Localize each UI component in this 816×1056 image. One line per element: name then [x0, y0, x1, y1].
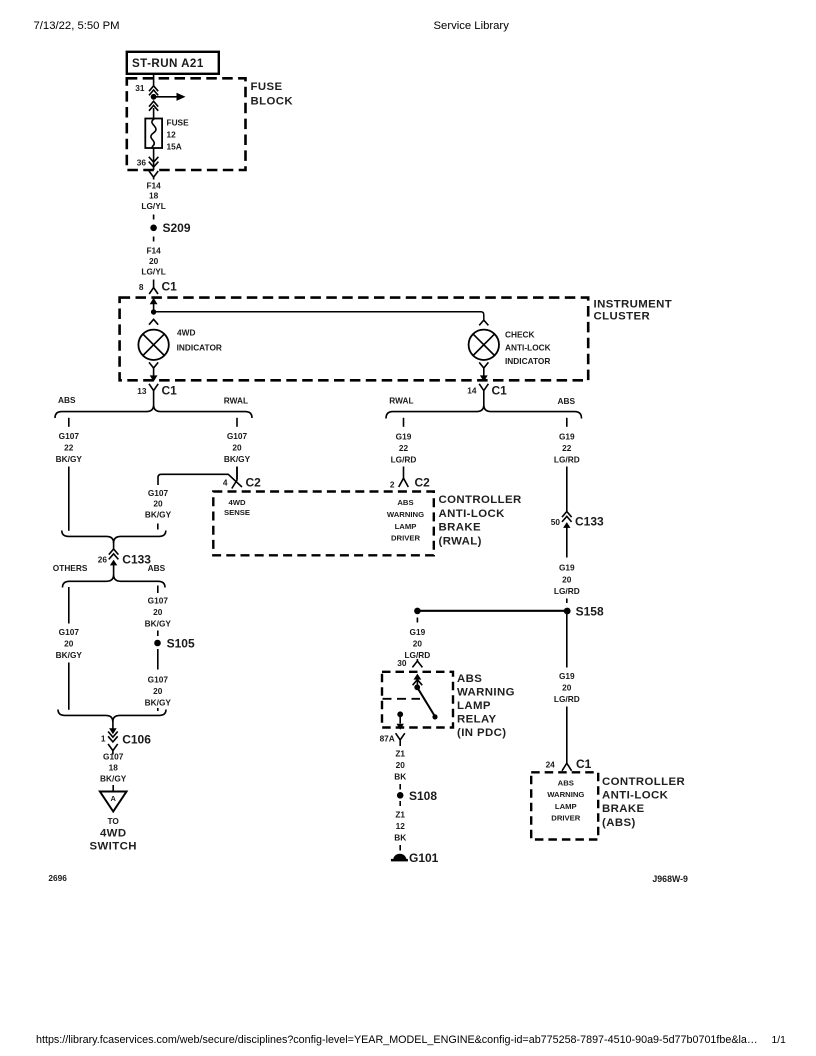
svg-text:CONTROLLER: CONTROLLER [602, 776, 685, 788]
wire ABS G107 20 BK/GY (upper) [145, 586, 172, 637]
svg-text:BLOCK: BLOCK [251, 96, 294, 108]
svg-text:1/1: 1/1 [772, 1035, 787, 1046]
svg-text:ABS: ABS [397, 498, 413, 507]
svg-text:BK: BK [394, 833, 406, 843]
splice S105 [154, 637, 195, 651]
connector fork below fuse block [149, 171, 158, 177]
wire G19 22 LG/RD (RWAL) [391, 418, 417, 478]
svg-text:BRAKE: BRAKE [602, 803, 645, 815]
svg-text:ANTI-LOCK: ANTI-LOCK [439, 508, 506, 520]
connector pin 87A [380, 733, 405, 746]
svg-text:LG/RD: LG/RD [554, 694, 580, 704]
off-page connector A to 4WD switch [90, 792, 137, 853]
wire G19 22 LG/RD (ABS) [554, 418, 580, 511]
connector C1 pin 13 [137, 384, 177, 406]
svg-text:A: A [110, 794, 116, 803]
wire OTHERS G107 20 BK/GY [56, 587, 83, 710]
svg-text:RWAL: RWAL [224, 396, 248, 406]
svg-text:C2: C2 [415, 476, 431, 490]
svg-text:LG/RD: LG/RD [554, 586, 580, 596]
svg-text:20: 20 [562, 683, 572, 693]
svg-text:20: 20 [153, 686, 163, 696]
svg-text:22: 22 [562, 443, 572, 453]
svg-text:ABS: ABS [558, 779, 574, 788]
svg-text:12: 12 [396, 821, 406, 831]
svg-text:G107: G107 [227, 431, 248, 441]
relay output contact [397, 711, 403, 717]
svg-text:C106: C106 [122, 733, 151, 747]
splitter brace below C1-14 [386, 405, 582, 419]
svg-text:24: 24 [546, 760, 556, 770]
svg-text:C133: C133 [575, 515, 604, 529]
svg-text:G107: G107 [59, 627, 80, 637]
svg-text:8: 8 [139, 282, 144, 292]
svg-text:C2: C2 [246, 476, 262, 490]
svg-text:20: 20 [232, 443, 242, 453]
svg-text:G19: G19 [410, 627, 426, 637]
svg-text:G19: G19 [396, 432, 412, 442]
svg-text:36: 36 [137, 158, 147, 168]
svg-text:FUSE: FUSE [251, 81, 283, 93]
svg-text:S158: S158 [576, 605, 604, 619]
svg-text:1: 1 [101, 734, 106, 744]
wire fuse to pin 36 [153, 148, 155, 170]
svg-text:J968W-9: J968W-9 [652, 874, 688, 884]
svg-text:BK/GY: BK/GY [56, 650, 83, 660]
lamp 4WD indicator [138, 319, 222, 376]
svg-text:BK/GY: BK/GY [145, 510, 172, 520]
svg-text:BK/GY: BK/GY [56, 454, 83, 464]
relay switch blade [417, 687, 437, 719]
wire G107 20 BK/GY (RWAL branch) [224, 418, 251, 479]
svg-text:OTHERS: OTHERS [53, 563, 88, 573]
svg-text:WARNING: WARNING [387, 510, 424, 519]
svg-text:20: 20 [64, 639, 74, 649]
junction dot relay branch [414, 608, 421, 615]
svg-text:2696: 2696 [48, 873, 67, 883]
connector C1 pin 8 [139, 280, 177, 295]
svg-text:87A: 87A [380, 734, 395, 744]
svg-text:LAMP: LAMP [395, 522, 417, 531]
connector C1 pin 14 [467, 384, 507, 406]
wire ST-RUN to pin 31 [153, 74, 155, 86]
svg-text:20: 20 [149, 256, 159, 266]
svg-text:LAMP: LAMP [555, 802, 577, 811]
svg-text:ABS: ABS [148, 563, 166, 573]
wire cluster bus [154, 312, 484, 321]
svg-text:F14: F14 [146, 181, 161, 191]
pin 36 [137, 157, 159, 168]
svg-text:LG/RD: LG/RD [404, 650, 430, 660]
svg-text:22: 22 [64, 443, 74, 453]
svg-text:(ABS): (ABS) [602, 817, 636, 829]
relay pin 30 inner chevron [413, 674, 423, 688]
fuse F12 15A [145, 118, 189, 152]
svg-text:S209: S209 [163, 221, 191, 235]
connector C133 pin 26 [98, 542, 152, 577]
controller anti-lock brake ABS enclosure [531, 772, 685, 839]
svg-text:26: 26 [98, 554, 108, 564]
wire F14 20 LG/YL [141, 237, 165, 277]
svg-text:12: 12 [167, 130, 177, 140]
svg-text:BK/GY: BK/GY [100, 774, 127, 784]
svg-text:BK/GY: BK/GY [145, 619, 172, 629]
svg-text:22: 22 [399, 443, 409, 453]
lamp check anti-lock indicator [469, 320, 551, 376]
splice S108 [397, 789, 437, 803]
svg-text:RELAY: RELAY [457, 714, 497, 726]
svg-text:BK/GY: BK/GY [145, 698, 172, 708]
svg-text:Z1: Z1 [395, 810, 405, 820]
svg-text:https://library.fcaservices.co: https://library.fcaservices.com/web/secu… [36, 1034, 758, 1046]
connector C1 pin 24 [546, 757, 592, 771]
svg-text:C1: C1 [162, 280, 178, 294]
svg-text:ABS: ABS [457, 673, 482, 685]
svg-text:4WD: 4WD [177, 328, 195, 338]
svg-text:G107: G107 [103, 752, 124, 762]
wire ABS G107 20 BK/GY (lower) [145, 649, 172, 711]
svg-text:G19: G19 [559, 671, 575, 681]
junction dot cluster bus [151, 309, 156, 314]
splice S158 [564, 605, 604, 619]
svg-text:G107: G107 [148, 488, 169, 498]
svg-text:ABS: ABS [558, 396, 576, 406]
ground G101 [391, 851, 439, 865]
wire G19 20 LG/RD (below S158) [554, 614, 580, 763]
svg-text:(RWAL): (RWAL) [439, 536, 482, 548]
svg-text:INDICATOR: INDICATOR [505, 356, 550, 366]
fuse block enclosure [127, 78, 294, 170]
controller anti-lock brake RWAL enclosure [213, 492, 521, 556]
svg-text:LG/YL: LG/YL [141, 267, 165, 277]
svg-text:18: 18 [109, 763, 119, 773]
svg-text:18: 18 [149, 191, 159, 201]
svg-text:WARNING: WARNING [457, 687, 515, 699]
wire G19 20 LG/RD (above S158) [554, 563, 580, 604]
svg-text:DRIVER: DRIVER [551, 814, 580, 823]
merge brace into C106 [58, 710, 166, 722]
svg-text:G19: G19 [559, 563, 575, 573]
relay switch common contact [414, 684, 420, 690]
svg-text:SWITCH: SWITCH [90, 841, 137, 853]
svg-text:ABS: ABS [58, 395, 76, 405]
svg-text:7/13/22, 5:50 PM: 7/13/22, 5:50 PM [34, 20, 120, 32]
svg-text:LG/RD: LG/RD [391, 455, 417, 465]
svg-text:CONTROLLER: CONTROLLER [439, 494, 522, 506]
svg-text:S108: S108 [409, 789, 437, 803]
relay output wire to pin 87A [397, 714, 404, 730]
merge brace into C133 [62, 531, 166, 544]
male pin arrow out of cluster left [150, 375, 158, 381]
wire G107 18 BK/GY [100, 752, 127, 792]
male pin arrow into cluster [150, 298, 158, 312]
svg-text:BK/GY: BK/GY [224, 454, 251, 464]
svg-text:C1: C1 [162, 384, 178, 398]
wire G107 22 BK/GY [56, 418, 83, 531]
instrument cluster enclosure [120, 298, 673, 381]
svg-text:G107: G107 [59, 431, 80, 441]
svg-text:20: 20 [396, 760, 406, 770]
svg-text:SENSE: SENSE [224, 508, 250, 517]
svg-text:4WD: 4WD [100, 828, 127, 840]
svg-text:BRAKE: BRAKE [439, 522, 482, 534]
splitter brace below C133 [63, 575, 166, 588]
svg-text:G19: G19 [559, 432, 575, 442]
wire Z1 20 BK [394, 749, 406, 790]
svg-text:DRIVER: DRIVER [391, 534, 420, 543]
svg-text:G107: G107 [148, 675, 169, 685]
splice S209 [150, 221, 191, 235]
svg-text:20: 20 [153, 499, 163, 509]
svg-text:4: 4 [223, 478, 228, 488]
svg-text:14: 14 [467, 386, 477, 396]
svg-text:ST-RUN A21: ST-RUN A21 [132, 57, 204, 70]
svg-text:30: 30 [397, 658, 407, 668]
svg-text:TO: TO [108, 816, 120, 826]
connector chevrons below junction [149, 101, 158, 118]
svg-text:INDICATOR: INDICATOR [177, 343, 222, 353]
svg-text:INSTRUMENT: INSTRUMENT [594, 299, 673, 311]
svg-text:BK: BK [394, 772, 406, 782]
connector C2 pin 2 [390, 476, 430, 490]
ABS warning lamp relay enclosure [382, 672, 515, 739]
wire F14 18 LG/YL [141, 177, 165, 220]
svg-text:13: 13 [137, 386, 147, 396]
wire G107 20 BK/GY (to C133) [145, 488, 172, 530]
svg-text:C1: C1 [576, 757, 592, 771]
svg-text:LG/YL: LG/YL [141, 201, 165, 211]
svg-text:ANTI-LOCK: ANTI-LOCK [602, 790, 669, 802]
svg-text:CHECK: CHECK [505, 330, 535, 340]
male pin arrow out of cluster right [480, 375, 488, 381]
svg-text:LG/RD: LG/RD [554, 455, 580, 465]
svg-text:ANTI-LOCK: ANTI-LOCK [505, 343, 551, 353]
svg-text:WARNING: WARNING [547, 790, 584, 799]
svg-text:20: 20 [413, 639, 423, 649]
wire Z1 12 BK [394, 801, 406, 851]
node ST-RUN A21 [127, 52, 219, 74]
connector C133 pin 50 [551, 512, 604, 558]
svg-text:CLUSTER: CLUSTER [594, 311, 651, 323]
pin 31 [135, 83, 158, 95]
svg-text:31: 31 [135, 83, 145, 93]
junction dot fuse feed [151, 94, 157, 100]
connector C2 pin 4 [223, 467, 261, 490]
relay pin 30 [397, 658, 422, 668]
svg-text:20: 20 [153, 607, 163, 617]
svg-text:2: 2 [390, 480, 395, 490]
svg-text:C1: C1 [492, 384, 508, 398]
svg-text:S105: S105 [167, 637, 195, 651]
svg-text:20: 20 [562, 575, 572, 585]
svg-text:(IN PDC): (IN PDC) [457, 727, 506, 739]
svg-text:G107: G107 [148, 596, 169, 606]
svg-text:G101: G101 [409, 851, 439, 865]
splitter brace below C1-13 [55, 405, 252, 418]
wire S158 to relay branch [417, 610, 567, 612]
wire G19 20 LG/RD (to relay) [404, 618, 430, 661]
svg-text:15A: 15A [167, 142, 182, 152]
svg-text:Service Library: Service Library [434, 20, 510, 32]
arrow to other circuits [154, 93, 186, 101]
connector C106 pin 1 [101, 721, 151, 755]
wire branch to C133 [158, 474, 242, 487]
relay coil actuator (dashed) [383, 698, 421, 700]
svg-text:RWAL: RWAL [389, 396, 413, 406]
svg-text:F14: F14 [146, 246, 161, 256]
svg-text:50: 50 [551, 517, 561, 527]
svg-text:FUSE: FUSE [167, 118, 190, 128]
svg-text:Z1: Z1 [395, 749, 405, 759]
svg-text:4WD: 4WD [228, 498, 246, 507]
svg-text:LAMP: LAMP [457, 700, 491, 712]
